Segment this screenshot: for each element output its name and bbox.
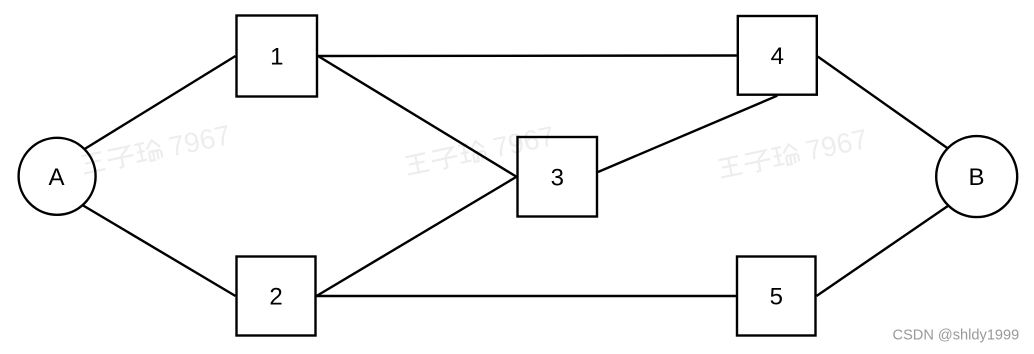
wire 4-B [818, 57, 977, 170]
svg-text:2: 2 [269, 284, 282, 311]
wire 5-B [817, 186, 978, 296]
svg-text:CSDN @shldy1999: CSDN @shldy1999 [893, 328, 1020, 344]
svg-text:1: 1 [270, 44, 283, 71]
node 3 [518, 137, 598, 217]
watermark tile 1 (stamped on top) [79, 119, 233, 181]
wire 1-4 [318, 54, 737, 57]
node 5 [737, 257, 816, 336]
node B [936, 136, 1017, 217]
watermark tile 2 [403, 120, 557, 182]
wire 3-4 [598, 96, 777, 172]
node 2 [237, 257, 316, 336]
wire 1-3 [318, 56, 517, 177]
char zi [106, 146, 135, 170]
char yu [133, 139, 163, 164]
char wang [80, 152, 105, 174]
watermark tile 3 [716, 123, 870, 185]
svg-text:3: 3 [551, 164, 564, 191]
svg-text:B: B [968, 164, 984, 191]
node 1 [237, 16, 318, 97]
wire 2-3 [317, 177, 517, 296]
node 4 [738, 16, 817, 95]
wire A-1 [57, 56, 236, 166]
svg-text:5: 5 [770, 284, 783, 311]
node A [19, 138, 96, 215]
edges [57, 56, 977, 297]
wire A-2 [57, 190, 236, 296]
svg-text:4: 4 [771, 43, 784, 70]
svg-text:A: A [48, 164, 64, 191]
wire 2-5 [317, 295, 737, 297]
